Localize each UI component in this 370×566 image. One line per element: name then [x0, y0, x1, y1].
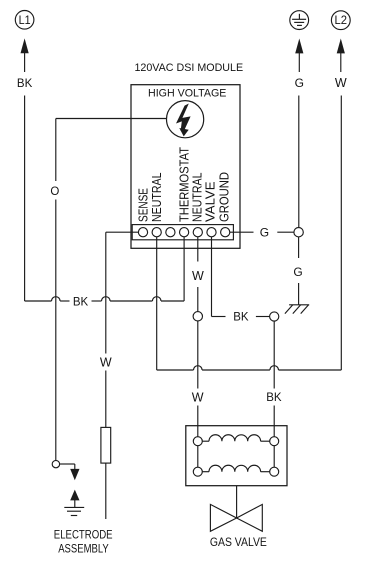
- arrow L2 lead: [337, 39, 345, 54]
- valve terminal BL: [193, 467, 202, 476]
- wire neutral (pin 2 down to neutral bus): [156, 237, 158, 370]
- wire BK from L1: [24, 53, 26, 302]
- svg-text:W: W: [192, 390, 204, 404]
- svg-text:VALVE: VALVE: [203, 181, 218, 222]
- svg-text:W: W: [192, 269, 204, 283]
- earth ground (electrode): [64, 507, 84, 515]
- spark gap ground electrode (up arrow): [70, 490, 79, 508]
- svg-text:L2: L2: [335, 15, 348, 27]
- svg-text:120VAC DSI MODULE: 120VAC DSI MODULE: [134, 62, 243, 74]
- node connector on BK valve wire: [270, 312, 279, 321]
- terminal strip TB1: [132, 225, 233, 240]
- wire from HV circle to O wire: [56, 118, 167, 120]
- earth terminal (top): [290, 11, 309, 30]
- wire below electrode element: [105, 463, 107, 519]
- svg-text:BK: BK: [17, 78, 33, 90]
- valve coil upper: [202, 435, 269, 441]
- wire valve right link: [273, 446, 275, 468]
- electrode sense element: [101, 427, 111, 463]
- wire valve BK (pin 6 down and right): [212, 237, 270, 317]
- pin 2 NEUTRAL: [152, 228, 161, 237]
- svg-text:O: O: [50, 186, 59, 198]
- pin 6 VALVE: [207, 228, 216, 237]
- node connector on W valve wire: [193, 312, 202, 321]
- electrode node: [52, 460, 59, 467]
- svg-text:W: W: [100, 355, 112, 369]
- svg-text:HIGH VOLTAGE: HIGH VOLTAGE: [148, 88, 226, 100]
- svg-text:GROUND: GROUND: [217, 172, 232, 222]
- svg-text:BK: BK: [233, 312, 249, 324]
- svg-text:BK: BK: [266, 392, 282, 404]
- pin 1 SENSE: [138, 228, 147, 237]
- terminal L1: [15, 10, 34, 29]
- valve coil lower: [202, 465, 269, 471]
- svg-text:W: W: [335, 76, 347, 90]
- wire W from L2: [340, 53, 343, 370]
- arrow G lead: [295, 39, 303, 54]
- wire valve W lower: [197, 321, 199, 437]
- label ELECTRODE ASSEMBLY: [54, 527, 113, 555]
- pin 3 (unlabeled): [166, 228, 175, 237]
- wire valve W (pin 5 down): [197, 237, 199, 312]
- chassis ground: [285, 305, 309, 314]
- svg-text:G: G: [293, 265, 302, 279]
- wire valve left link: [197, 446, 199, 468]
- node connector G: [294, 228, 303, 237]
- wire O (spark lead): [55, 119, 57, 461]
- wire valve BK lower: [273, 321, 275, 437]
- svg-text:L1: L1: [19, 15, 31, 27]
- svg-text:BK: BK: [73, 297, 89, 309]
- wire G from strip right: [230, 231, 294, 233]
- svg-text:G: G: [295, 76, 304, 90]
- spark gap electrode (down arrow): [59, 464, 79, 480]
- svg-text:NEUTRAL: NEUTRAL: [149, 173, 164, 223]
- valve terminal TL: [193, 437, 202, 446]
- terminal L2: [331, 11, 350, 30]
- high voltage symbol (flash): [167, 101, 204, 138]
- pin 7 GROUND: [221, 228, 230, 237]
- wire G (top vertical): [298, 53, 301, 228]
- wire valve stem: [236, 486, 238, 518]
- pin 5 NEUTRAL: [193, 228, 202, 237]
- valve terminal BR: [270, 467, 279, 476]
- wire BK run (y=301) with hops: [25, 297, 185, 301]
- svg-text:GAS VALVE: GAS VALVE: [210, 535, 267, 549]
- arrow L1 lead: [21, 38, 29, 53]
- wire neutral bus (y=370) with hops: [157, 366, 342, 370]
- svg-text:ELECTRODE: ELECTRODE: [54, 527, 113, 541]
- svg-text:G: G: [260, 225, 269, 239]
- gas valve symbol: [210, 504, 262, 531]
- svg-text:ASSEMBLY: ASSEMBLY: [58, 541, 109, 555]
- wire sense W (strip left to electrode element): [106, 232, 139, 427]
- wire G lower: [298, 237, 300, 305]
- pin 4 THERMOSTAT: [180, 228, 189, 237]
- valve terminal TR: [270, 437, 279, 446]
- gas valve box: [186, 426, 287, 486]
- wire thermostat riser (pin 4): [183, 237, 185, 301]
- DSI module U1 box: [131, 85, 240, 249]
